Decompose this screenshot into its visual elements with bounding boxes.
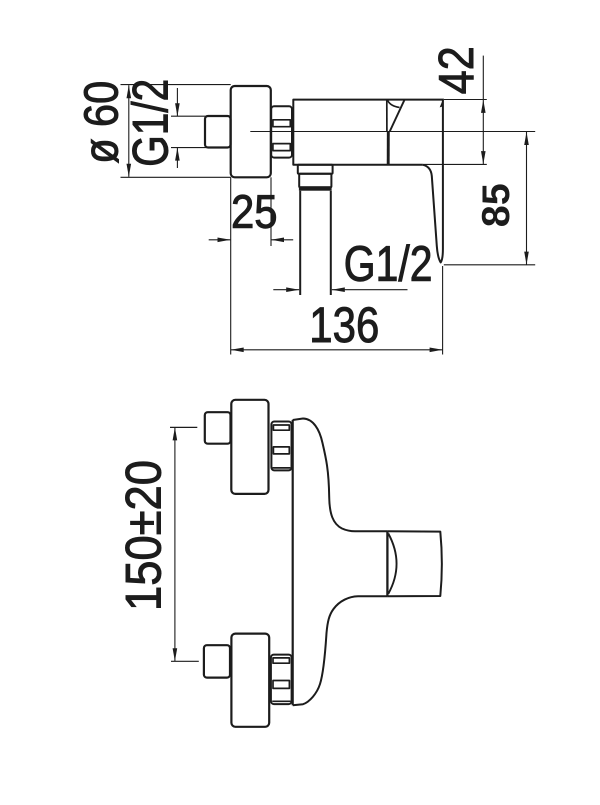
top nut bottom cap line — [273, 467, 291, 469]
top hex nut front — [271, 422, 291, 471]
dim 25 line right tail — [271, 239, 293, 241]
dim G1/2 outlet line right — [332, 289, 408, 291]
outlet thick thread band — [299, 186, 332, 190]
nut groove lower — [273, 144, 290, 151]
dim 150 center tick bottom — [171, 660, 199, 662]
body front left edge — [292, 420, 294, 705]
handle front: dome arc — [388, 534, 396, 594]
dim ø60 arrow down — [127, 164, 132, 177]
dim G1/2 inlet line upper — [176, 88, 178, 116]
dim 85 arrow down — [524, 252, 529, 265]
dim G1/2 inlet extension top — [171, 115, 206, 117]
outlet pipe right edge — [330, 191, 332, 295]
dim ø60 extension bottom — [121, 176, 231, 178]
svg-text:150±20: 150±20 — [116, 460, 172, 611]
handle front: left edge — [386, 531, 388, 596]
outlet flange — [298, 165, 333, 174]
dim 150 line — [174, 427, 176, 661]
dim 150 center tick top — [170, 426, 197, 428]
dim G1/2 outlet arrow left — [332, 287, 345, 292]
dim 42 extension bottom (body bottom) — [423, 163, 487, 165]
handle lever blade — [423, 100, 443, 262]
svg-text:G1/2: G1/2 — [344, 236, 433, 292]
dim 136 line — [231, 349, 443, 351]
bottom escutcheon front — [231, 634, 269, 727]
dim 85 extension bottom (handle tip) — [444, 264, 535, 266]
dim 25 line left tail — [209, 239, 231, 241]
handle lever diagonal — [390, 100, 405, 132]
body front lower right profile — [293, 596, 388, 705]
hex nut (side view, connection G1/2) — [271, 106, 292, 157]
svg-text:136: 136 — [309, 297, 379, 353]
inlet stub (wall pipe) — [205, 116, 231, 148]
wire center line top view — [250, 131, 535, 133]
dim G1/2 inlet extension bottom — [171, 147, 207, 149]
dim G1/2 outlet arrow right — [286, 287, 299, 292]
dim 136 arrow left — [231, 348, 244, 353]
nut groove upper — [273, 120, 290, 127]
dim 150 arrow up — [173, 427, 178, 440]
bottom nut groove upper — [273, 658, 289, 663]
outlet nut band — [299, 174, 331, 188]
dim ø60 line — [128, 85, 130, 177]
top nut groove lower — [273, 447, 289, 454]
dim ø60 arrow up — [127, 85, 132, 98]
body front right profile — [293, 419, 388, 532]
dim 42 arrow up — [481, 100, 486, 113]
dim 136 arrow right — [430, 348, 443, 353]
handle pivot arc detail — [388, 101, 400, 108]
svg-text:85: 85 — [475, 183, 518, 227]
escutcheon (side view of ø60 rosette) — [231, 86, 271, 177]
top inlet stub front — [205, 412, 231, 444]
svg-text:ø 60: ø 60 — [76, 81, 129, 164]
bottom hex nut front — [271, 655, 292, 705]
dim 25 arrow right — [218, 238, 231, 243]
handle joint line lower — [387, 131, 390, 164]
bottom inlet stub front — [204, 645, 230, 677]
svg-text:42: 42 — [430, 46, 484, 94]
dim 136 extension left — [230, 177, 232, 354]
dim 85 arrow up — [524, 132, 529, 145]
dim G1/2 inlet arrow up — [175, 148, 180, 161]
top escutcheon front — [231, 400, 268, 494]
dim G1/2 outlet line left — [273, 289, 299, 291]
dim G1/2 inlet arrow down — [175, 103, 180, 116]
dim 25 extension right — [270, 177, 272, 246]
svg-text:25: 25 — [231, 185, 278, 238]
dim 25 arrow left — [271, 238, 284, 243]
handle joint line upper — [386, 100, 388, 132]
mixer body outline — [293, 100, 444, 165]
dim 85 line — [526, 132, 528, 265]
dim G1/2 inlet line lower — [176, 148, 178, 168]
bottom nut bottom cap line — [272, 700, 290, 702]
dim 136 extension right — [442, 266, 444, 355]
dim 42 arrow down — [481, 151, 486, 164]
dim 42 line — [482, 56, 484, 165]
bottom nut groove lower — [273, 681, 289, 689]
dim 42 extension top (handle top) — [444, 99, 487, 101]
dim 150 arrow down — [173, 648, 178, 661]
handle front: outline — [387, 531, 441, 596]
tiny arrow at handle corner — [440, 101, 443, 108]
outlet pipe left edge — [299, 191, 301, 295]
dim ø60 extension top — [121, 84, 231, 86]
top nut groove upper — [273, 425, 289, 430]
svg-text:G1/2: G1/2 — [123, 79, 179, 167]
